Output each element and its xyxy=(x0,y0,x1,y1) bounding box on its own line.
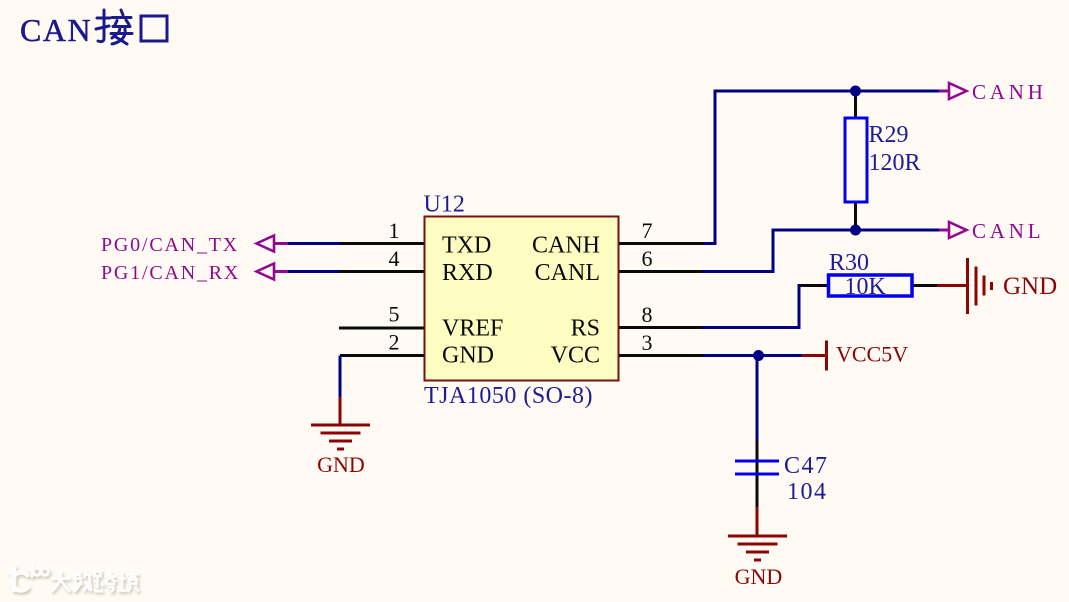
svg-text:6: 6 xyxy=(642,246,653,271)
svg-text:RS: RS xyxy=(571,316,600,342)
svg-text:VCC: VCC xyxy=(551,343,600,369)
svg-text:3: 3 xyxy=(642,330,653,355)
svg-text:VREF: VREF xyxy=(442,316,503,342)
svg-text:104: 104 xyxy=(787,479,828,505)
svg-text:10K: 10K xyxy=(845,274,887,300)
svg-text:CANL: CANL xyxy=(535,260,600,286)
svg-text:CAN: CAN xyxy=(20,12,92,48)
svg-text:GND: GND xyxy=(735,564,783,589)
svg-text:GND: GND xyxy=(1003,273,1057,300)
svg-text:5: 5 xyxy=(389,302,400,327)
svg-text:CANH: CANH xyxy=(972,80,1047,104)
svg-text:8: 8 xyxy=(642,302,653,327)
svg-text:TJA1050 (SO-8): TJA1050 (SO-8) xyxy=(424,383,593,409)
svg-text:GND: GND xyxy=(442,343,494,369)
svg-text:C47: C47 xyxy=(784,453,829,479)
svg-text:GND: GND xyxy=(317,452,365,477)
svg-text:7: 7 xyxy=(642,218,653,243)
svg-text:PG1/CAN_RX: PG1/CAN_RX xyxy=(101,262,240,284)
svg-text:TXD: TXD xyxy=(442,233,491,259)
svg-text:U12: U12 xyxy=(424,192,465,218)
svg-text:R30: R30 xyxy=(829,250,869,276)
svg-text:4: 4 xyxy=(389,246,400,271)
svg-text:VCC5V: VCC5V xyxy=(836,342,908,367)
svg-text:120R: 120R xyxy=(869,150,921,176)
svg-text:CANH: CANH xyxy=(532,233,600,259)
svg-text:CANL: CANL xyxy=(972,219,1044,243)
svg-text:2: 2 xyxy=(389,330,400,355)
svg-text:1: 1 xyxy=(389,218,400,243)
svg-text:PG0/CAN_TX: PG0/CAN_TX xyxy=(101,234,239,256)
svg-text:R29: R29 xyxy=(869,122,909,148)
svg-text:RXD: RXD xyxy=(442,260,493,286)
